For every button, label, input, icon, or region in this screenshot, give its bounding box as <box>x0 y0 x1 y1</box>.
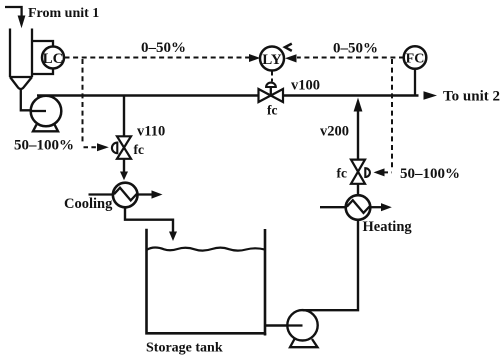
svg-text:v200: v200 <box>320 124 349 140</box>
vessel V1 <box>10 29 32 90</box>
arrow into v200 actuator <box>374 168 385 176</box>
wire vessel outlet to pump <box>21 89 46 110</box>
svg-text:0–50%: 0–50% <box>333 41 378 57</box>
node LC tap bottom <box>32 69 53 75</box>
arrow heating outlet <box>381 203 392 211</box>
wire cooling hx to storage tank <box>125 207 173 231</box>
valve v200 <box>351 160 370 184</box>
pump P2 <box>287 310 317 347</box>
arrow into vessel <box>18 16 26 29</box>
svg-text:v100: v100 <box>291 78 320 94</box>
wire cooling outlet stub <box>138 193 152 195</box>
arrow v200 into main pipe <box>354 98 363 112</box>
arrow into cooling hx <box>120 172 128 181</box>
svg-text:v110: v110 <box>137 124 165 140</box>
signal wire branch down to v200 <box>391 59 393 169</box>
controller LY <box>260 47 284 71</box>
valve v100 <box>259 83 284 102</box>
wire heating outlet stub <box>370 206 381 208</box>
svg-text:fc: fc <box>134 142 145 157</box>
wire heating to v200 <box>357 184 359 195</box>
pump P1 <box>31 96 62 132</box>
storage tank <box>147 229 266 336</box>
arrow to unit 2 <box>424 91 438 100</box>
wire pump discharge to heating <box>303 220 359 311</box>
arrow cooling outlet <box>152 190 163 198</box>
node LC tap top <box>32 41 53 47</box>
svg-text:Cooling: Cooling <box>64 196 113 212</box>
heat exchanger cooling <box>113 183 138 208</box>
valve v110 <box>112 136 131 159</box>
wire heating inlet stub <box>320 206 346 208</box>
svg-text:50–100%: 50–100% <box>400 166 460 182</box>
wire feed pipe from unit 1 <box>5 7 22 16</box>
svg-text:50–100%: 50–100% <box>14 138 74 154</box>
wire tank outlet to pump <box>265 324 302 326</box>
svg-text:0–50%: 0–50% <box>141 40 186 56</box>
wire FC to main pipe <box>414 69 416 95</box>
signal wire LY to v100 <box>271 72 273 82</box>
svg-text:LC: LC <box>43 51 64 67</box>
wire v110 to cooling hx <box>123 159 125 172</box>
wire v200 to main pipe <box>357 111 359 160</box>
signal wire branch down to v110 <box>82 59 84 144</box>
wire main pipe right segment <box>283 94 419 96</box>
wire main pipe left segment <box>37 94 258 96</box>
low-select mark <box>285 44 292 51</box>
heat exchanger heating <box>346 195 371 220</box>
svg-text:fc: fc <box>337 166 348 181</box>
wire cooling inlet stub <box>89 193 114 195</box>
signal wire elbow to v110 actuator <box>84 146 98 148</box>
svg-text:To unit 2: To unit 2 <box>443 89 500 105</box>
svg-text:fc: fc <box>267 103 278 118</box>
arrow into LY left <box>249 54 260 62</box>
controller LC <box>42 47 64 69</box>
signal wire stub to v200 arrow <box>384 171 392 173</box>
signal wire FC to LY <box>297 57 404 59</box>
controller FC <box>404 46 427 69</box>
svg-text:Storage tank: Storage tank <box>146 341 223 356</box>
svg-text:LY: LY <box>262 52 282 68</box>
svg-text:Heating: Heating <box>363 219 413 235</box>
svg-text:FC: FC <box>406 51 425 66</box>
signal wire LC to LY <box>65 57 250 59</box>
arrow into v110 actuator <box>97 143 109 151</box>
arrow into tank <box>169 232 177 242</box>
svg-text:From unit 1: From unit 1 <box>28 6 99 21</box>
wire branch pipe to v110 <box>123 96 125 137</box>
arrow into LY right <box>285 54 297 62</box>
liquid surface <box>147 247 266 250</box>
